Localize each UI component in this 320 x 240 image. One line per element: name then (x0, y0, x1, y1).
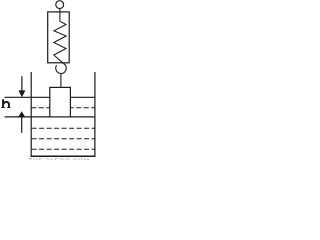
container bottom (31, 155, 96, 157)
spring (zigzag) (54, 8, 66, 63)
hook loop (56, 63, 67, 73)
dimension up arrow (to depth line) (18, 111, 25, 117)
dashed liquid line 3 (32, 138, 95, 140)
liquid surface line (upper level) (5, 96, 95, 98)
dashed liquid line 1 (31, 107, 95, 109)
container left wall (30, 72, 32, 157)
label h (1, 99, 10, 108)
submerged depth line (lower level, through block bottom) (5, 116, 95, 118)
dashed liquid line 4 (32, 148, 95, 150)
container right wall (94, 72, 96, 157)
dimension down arrow (to surface line) (21, 76, 23, 91)
svg-text:THE JYEOO.COM: THE JYEOO.COM (29, 158, 90, 160)
hanger rod (60, 74, 62, 88)
mass block (white-filled, hangs into liquid) (50, 87, 71, 117)
dashed liquid line 2 (32, 127, 95, 129)
suspension ring (56, 1, 64, 9)
background (0, 0, 100, 160)
spring box outline (48, 12, 69, 63)
